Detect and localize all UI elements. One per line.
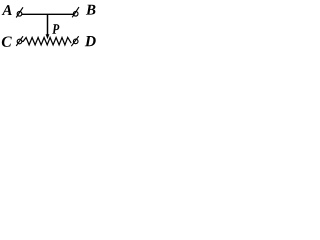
node C label [2, 36, 12, 46]
node B label [86, 5, 96, 15]
terminal B [72, 7, 79, 17]
potentiometer resistor body (zigzag C-D) [22, 37, 71, 45]
wiper arrowhead [46, 34, 50, 39]
wire A-B (top) [22, 13, 74, 15]
terminal C [16, 36, 23, 46]
terminal D [71, 36, 78, 46]
terminal A [16, 7, 23, 17]
node A label [2, 5, 12, 15]
wiper wire (vertical) [47, 14, 49, 35]
node D label [85, 36, 96, 46]
wiper P label [52, 24, 59, 33]
